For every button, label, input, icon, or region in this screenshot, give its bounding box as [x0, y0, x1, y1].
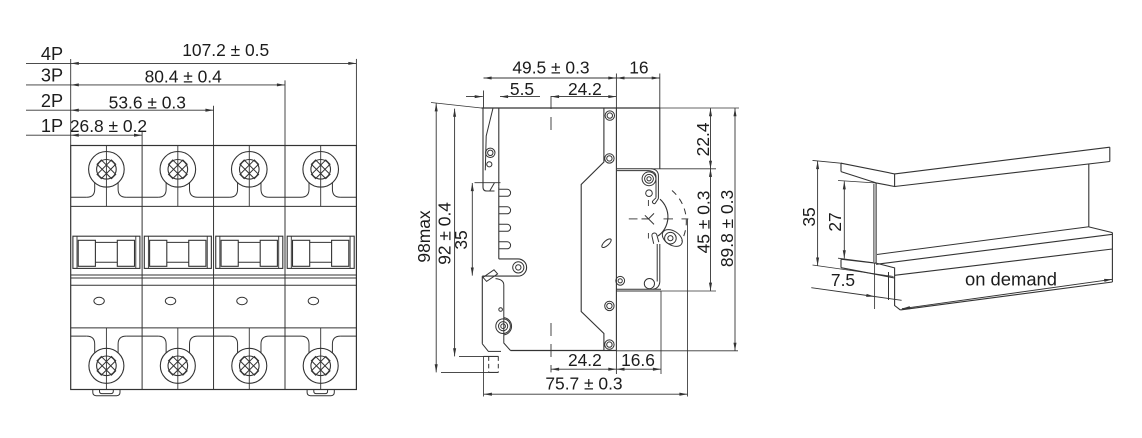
din rail: bottom flange left end face [876, 263, 900, 310]
svg-text:7.5: 7.5 [831, 270, 855, 290]
front view: horizontal section lines [71, 205, 357, 207]
din rail: bottom flange front-top edge [895, 249, 1113, 275]
side view: toggle recess lower lip stub [652, 233, 659, 244]
din rail: bottom flange bottom edge [900, 282, 1112, 310]
din rail: front opening edge (double) [875, 183, 877, 263]
side view: toggle tip [665, 232, 677, 244]
front view: pole divider lines [141, 146, 143, 390]
side view: DIN clip plate [483, 108, 495, 191]
side view: top front block [659, 108, 661, 169]
din rail: bottom flange web junction edge [877, 227, 1089, 255]
side view: lower channel small hole [499, 308, 503, 312]
side view: rail centreline (dashed) [550, 96, 552, 136]
svg-text:24.2: 24.2 [568, 79, 602, 99]
din rail: bottom flange lip-top edge [876, 234, 1112, 264]
side view: lower front face (double) [656, 244, 658, 282]
side view: clip lower lobe with rivet [482, 259, 526, 276]
side view: centre moulding outline [581, 108, 604, 351]
svg-text:5.5: 5.5 [510, 79, 534, 99]
side view: toggle area rivet [642, 172, 656, 186]
svg-text:35: 35 [799, 207, 819, 226]
front view: label slots (ovals) [94, 297, 104, 304]
front view: bottom terminal screws [105, 328, 107, 390]
din rail: web end edge [1088, 164, 1090, 227]
side view: lower channel rivet with boss [496, 319, 511, 334]
svg-text:53.6 ± 0.3: 53.6 ± 0.3 [109, 92, 186, 112]
din rail: bottom flange right end [1089, 227, 1113, 233]
side view: dimension 5.5 [466, 96, 483, 98]
side view: clip plate rivet [486, 148, 495, 157]
side view: dimension 75.7 ± 0.3 [484, 393, 688, 395]
front view: top screw recess shoulder line (segmented) [71, 196, 87, 198]
svg-text:49.5 ± 0.3: 49.5 ± 0.3 [512, 58, 589, 78]
side view: dimension 35 (clip) [471, 183, 473, 276]
side view: bottom edge [511, 350, 617, 352]
svg-text:24.2: 24.2 [568, 350, 602, 370]
svg-text:22.4: 22.4 [693, 122, 713, 156]
side view: top edge [481, 107, 660, 109]
side view: dimension 22.4 [710, 108, 712, 169]
side view: dimension 16 [616, 77, 659, 79]
svg-text:80.4 ± 0.4: 80.4 ± 0.4 [145, 67, 223, 87]
dimension 26.8 ± 0.2 (1P) [26, 134, 71, 136]
din rail: dimension 7.5 [811, 288, 874, 297]
din rail: top flange end face [841, 163, 895, 186]
side view: clip plate small hole [487, 162, 492, 167]
svg-text:1P: 1P [41, 116, 63, 136]
side view: toggle recess upper lip [652, 169, 659, 199]
svg-text:27: 27 [825, 212, 845, 231]
side view: clip lower body lines [481, 276, 483, 344]
dimension 53.6 ± 0.3 (2P) [26, 109, 71, 111]
side view: dimension 24.2 bottom [551, 368, 616, 370]
side view: dimension 24.2 top [551, 96, 616, 98]
din rail: dimension on demand [902, 279, 1112, 308]
front view: top terminal screws [105, 146, 107, 207]
side view: small hole above toggle [646, 190, 653, 197]
side view: clip release foot (slanted bar) [483, 270, 498, 282]
din rail: top flange length edges [895, 147, 1110, 174]
side view: toggle swing arc (dashed) [672, 191, 686, 242]
side view: clip channel edge with serration teeth [498, 186, 500, 259]
side view: dimension 98max [431, 103, 481, 109]
side view: pivot centrelines and mark [629, 218, 638, 220]
side view: stop roller circle [644, 279, 654, 289]
side view: dimension 49.5 ± 0.3 [484, 77, 617, 79]
side view: pivot star mark [642, 218, 649, 220]
side view: toggle dome arc [658, 199, 668, 236]
side view: slanted oval slot [601, 237, 613, 248]
side view: dimension 45 ± 0.3 [710, 169, 712, 291]
front view: toggle handle windows [73, 236, 140, 268]
front view: 4-pole breaker body outline [71, 146, 357, 390]
side view: assembly pin rivets [605, 111, 614, 120]
svg-text:3P: 3P [41, 66, 63, 86]
dimension 107.2 ± 0.5 (4P) [26, 62, 71, 64]
side view: lower step lines [616, 288, 661, 290]
svg-text:16.6: 16.6 [621, 350, 655, 370]
svg-text:16: 16 [629, 58, 648, 78]
side view: dimension 89.8 ± 0.3 [734, 108, 736, 351]
side view: pin column line [615, 108, 617, 351]
svg-text:75.7 ± 0.3: 75.7 ± 0.3 [545, 374, 622, 394]
side view: clip extended position (dashed) [488, 356, 490, 372]
svg-text:98max: 98max [414, 210, 434, 263]
dimension 80.4 ± 0.4 (3P) [26, 84, 71, 86]
svg-text:4P: 4P [41, 44, 63, 64]
svg-text:on demand: on demand [965, 269, 1057, 290]
front view: left extension line [70, 59, 72, 146]
svg-text:45 ± 0.3: 45 ± 0.3 [694, 191, 714, 254]
din rail: dimension 35 [813, 160, 843, 163]
din rail: dimension 27 [838, 181, 876, 184]
side view: dimension 92 ± 0.4 [454, 109, 456, 357]
svg-text:26.8 ± 0.2: 26.8 ± 0.2 [70, 116, 147, 136]
side view: dimension 16.6 [616, 368, 661, 370]
front view: bottom screw recess shoulder line (segmented) [71, 335, 87, 337]
front view: bottom mounting tabs (poles 1 and 4) [93, 390, 120, 396]
svg-text:107.2 ± 0.5: 107.2 ± 0.5 [182, 40, 269, 60]
svg-text:35: 35 [451, 230, 471, 249]
svg-text:89.8 ± 0.3: 89.8 ± 0.3 [717, 190, 737, 267]
svg-text:2P: 2P [41, 91, 63, 111]
